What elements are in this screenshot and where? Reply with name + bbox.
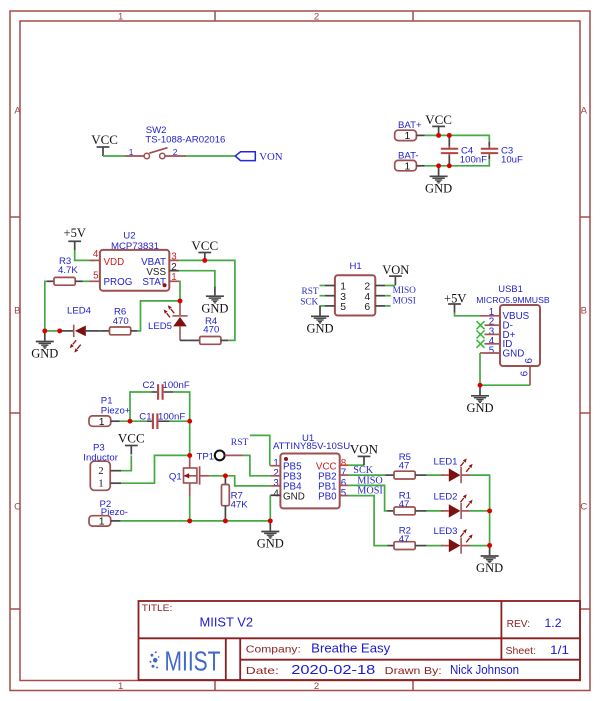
svg-text:USB1: USB1 [498,283,523,294]
connector BAT+ [395,120,422,142]
net flag VON [235,151,282,163]
capacitor C4 [441,135,487,165]
svg-text:REV:: REV: [507,618,530,630]
svg-text:VON: VON [259,151,283,163]
wire rail down [489,511,491,546]
resistor R2 [388,525,427,549]
resistor R1 [388,490,427,515]
wire +5V to U2 pin4 [75,250,94,260]
junction P1/C2 [128,419,133,424]
junction U1 GND [268,518,273,523]
switch SW2 [125,125,225,159]
svg-text:PB0: PB0 [318,492,337,503]
ground at U1 [257,522,284,551]
wire gate to junction [210,475,226,477]
wire junction to R6 branch [137,301,180,331]
svg-text:Nick Johnson: Nick Johnson [450,663,519,677]
svg-text:4: 4 [93,249,99,260]
ground at H1 [306,307,333,336]
pin 3 stub U2 [169,259,179,261]
junction USB GND [478,383,483,388]
VON supply at H1 [382,263,409,285]
title block texts [142,603,570,677]
wire P3 pin1 to drain junction [121,455,190,483]
wire LED4 left lead [60,330,73,332]
svg-text:6: 6 [524,358,535,364]
svg-text:VCC: VCC [118,431,145,446]
svg-text:2: 2 [314,12,319,23]
wire stubs H1 right green [385,296,391,306]
wire USB GND down [479,353,481,385]
wire STAT down to LED5 junction [178,281,181,301]
junction VBAT/VCC [202,258,207,263]
wire VSS to GND [179,271,215,287]
svg-text:SCK: SCK [353,465,373,476]
svg-text:MIIST V2: MIIST V2 [200,615,254,630]
wire RST stub to PB5 [250,435,270,465]
svg-text:VDD: VDD [104,257,125,268]
wire pin8 to VON [348,464,364,466]
VCC supply at BAT [425,112,452,136]
wire C1 to rail [170,420,190,422]
svg-text:H1: H1 [350,261,362,272]
wire LED4 to R6 [86,330,100,332]
resistor R5 [385,452,427,479]
pin 2 lead P3 [110,470,121,472]
svg-text:GND: GND [503,349,525,360]
pin 1 stub U2 [169,280,179,282]
svg-text:Drawn By:: Drawn By: [385,665,442,677]
svg-text:TITLE:: TITLE: [142,603,173,614]
pin 2 stub U2 [169,270,179,272]
junction C4 top [447,133,452,138]
pin 2 stub USB1 [485,324,501,326]
wire pin4 to GND rail [269,495,271,521]
wire BAT- rail [425,159,490,166]
connector P2 [89,499,128,528]
svg-text:4.7K: 4.7K [58,265,78,276]
svg-text:Q1: Q1 [169,472,182,483]
wire R3 left down to GND [45,281,47,331]
wire +5V to VBUS [455,313,481,316]
junction GND/BAT- [436,163,441,168]
pin lead P1 [111,420,120,422]
IC U1 ATTINY85V-10SU [273,433,350,508]
wire pin6 to GND junction [480,384,530,386]
resistor R6 [100,307,137,335]
junction LED3/GND [487,543,492,548]
svg-text:47: 47 [399,534,410,545]
wire VCC to P3 pin2 [121,456,131,471]
svg-text:Piezo+: Piezo+ [101,406,131,417]
wire LED3 to rail [470,545,490,547]
wire MISO to R1 [348,485,387,511]
no-connect X pin4 [477,340,485,348]
wire VBAT net [179,260,235,340]
svg-text:5: 5 [93,270,99,281]
svg-text:470: 470 [203,324,219,335]
test point TP1 [197,451,225,463]
svg-text:4: 4 [273,488,279,499]
LED LED2 [434,492,473,520]
svg-text:MISO: MISO [393,286,417,296]
VON supply at U1 [350,442,379,466]
svg-text:A: A [581,105,588,116]
MIIST logo [150,645,221,676]
wire Q1 source to rail [189,497,191,521]
svg-text:MIIST: MIIST [165,645,221,676]
junction C4 bottom [447,163,452,168]
VCC supply at SW2 [91,132,118,156]
capacitor C1 [139,411,185,429]
LED LED1 [434,457,473,484]
wire rail down [189,415,191,455]
pin 1 stub USB1 [480,315,500,317]
svg-text:6: 6 [519,370,530,376]
svg-text:TS-1088-AR02016: TS-1088-AR02016 [145,134,225,145]
pin 1 stub U1 [270,465,280,467]
svg-text:6: 6 [364,302,370,313]
svg-text:Company:: Company: [246,643,301,655]
svg-text:Sheet:: Sheet: [506,645,537,657]
+5V supply at U2 [64,226,86,250]
svg-text:C: C [580,502,587,513]
svg-text:1.2: 1.2 [545,616,562,630]
pin line TP1 to RST net [225,454,243,456]
pin 6 line USB1 [529,366,531,385]
pin 6 stub U1 [340,484,349,486]
wire R1 to LED2 [427,510,443,512]
svg-text:C1: C1 [139,411,151,422]
svg-text:+5V: +5V [444,292,466,306]
junction gate/R7 [223,473,228,478]
svg-text:1: 1 [129,147,134,157]
wire R2 to LED3 [427,545,443,547]
svg-text:47: 47 [399,499,410,510]
wire P2 ground rail [121,520,271,522]
wire LED1 to rail [470,475,490,511]
svg-text:C: C [14,502,21,513]
capacitor C3 [481,142,523,166]
pin 8 stub U1 [340,464,349,466]
junction R7/P2 rail [223,518,228,523]
pin 7 stub U1 [340,474,349,476]
pin stubs H1 right [375,286,385,306]
pin 5 stub U1 [340,495,349,497]
resistor R7 [222,476,249,521]
svg-text:VON: VON [350,442,379,457]
junction VCC/BAT+ [436,133,441,138]
svg-text:LED4: LED4 [67,305,92,316]
wire VCC to SW2 pin1 [103,155,125,157]
wire between dots [45,330,60,332]
wire P1 to C1 [120,420,147,422]
svg-text:ATTINY85V-10SU: ATTINY85V-10SU [273,441,350,452]
svg-text:100nF: 100nF [163,380,190,391]
LED LED3 [434,526,473,554]
svg-text:SCK: SCK [300,297,318,307]
svg-text:C2: C2 [143,380,155,391]
wire R5 to LED1 [427,474,443,476]
svg-text:1: 1 [118,12,123,23]
pin stubs H1 left [325,286,335,306]
connector P3 [83,442,118,490]
svg-text:Breathe Easy: Breathe Easy [311,642,391,656]
pin 4 stub U1 [270,494,280,496]
transistor Q1 [169,455,210,496]
wire LED2 to rail [470,510,490,512]
wire MOSI to R2 [348,496,387,546]
svg-text:5: 5 [489,346,495,357]
wire SCK to R5 [348,474,385,476]
junction rail/P3/Q1 [187,453,192,458]
pin 5 stub U2 [90,280,100,282]
svg-text:2: 2 [314,681,319,692]
svg-text:GND: GND [283,492,305,503]
svg-text:TP1: TP1 [197,452,215,463]
wire junction to PB4 [225,476,270,486]
svg-text:100nF: 100nF [460,154,487,165]
pin lead P2 [111,520,121,522]
svg-text:2020-02-18: 2020-02-18 [291,662,375,677]
wire H1 pin5 to GND [319,306,321,307]
junction C1/rail [187,419,192,424]
ground at USB [466,386,493,415]
svg-text:470: 470 [113,316,129,327]
svg-text:B: B [581,305,587,316]
svg-text:VON: VON [382,263,409,277]
svg-text:5: 5 [340,302,346,313]
junction Q1/P2 rail [187,518,192,523]
svg-text:1/1: 1/1 [550,643,569,657]
resistor R4 [189,316,228,344]
junction LED2/rail [487,508,492,513]
svg-text:RST: RST [231,437,249,448]
svg-text:PROG: PROG [104,277,133,288]
pin 3 stub U1 [270,485,280,487]
pin lead BAT- [416,165,424,167]
svg-text:+5V: +5V [64,226,86,240]
junction LED4 left [57,328,62,333]
capacitor C2 with branch wire [130,380,190,421]
svg-text:MOSI: MOSI [393,296,416,306]
wire R3 to U2 pin5 [83,280,91,282]
ground at LEDs [476,546,503,575]
wire SW2 pin2 to VON flag [187,155,235,157]
pin 4 stub U2 [90,259,100,261]
svg-text:1: 1 [118,681,123,692]
connector P1 [89,395,131,428]
svg-text:A: A [14,105,21,116]
svg-text:LED3: LED3 [434,526,458,537]
svg-text:1: 1 [98,479,103,490]
svg-text:LED2: LED2 [434,492,458,503]
header H1 [335,261,375,316]
svg-text:VCC: VCC [91,132,118,147]
no-connect X pin2 [477,321,485,329]
VCC supply at P3 [118,431,145,455]
ground at U2 VSS [201,286,228,315]
svg-text:STAT: STAT [142,277,166,288]
svg-text:LED5: LED5 [148,321,172,332]
svg-text:5: 5 [341,488,347,499]
pin 3 stub USB1 [485,333,501,335]
wire H1 pin2 to VON [385,285,395,287]
connector USB1 [476,283,550,376]
svg-text:MICRO5.9MMUSB: MICRO5.9MMUSB [476,295,550,305]
pin 5 stub USB1 [480,352,500,354]
LED LED4 [67,305,92,352]
ground at LED4 [31,332,58,361]
pin 4 stub USB1 [485,343,501,345]
svg-text:B: B [14,305,20,316]
no-connect X pin3 [477,330,485,338]
svg-text:2: 2 [98,466,103,477]
svg-text:47: 47 [399,460,410,471]
svg-text:VCC: VCC [425,112,452,127]
wire BAT+ rail [425,135,490,141]
svg-text:LED1: LED1 [434,457,458,468]
connector BAT- [395,150,419,172]
wire stubs H1 left green [320,286,326,306]
svg-text:VCC: VCC [191,238,218,253]
junction dots at R3 GND [42,328,47,333]
svg-text:2: 2 [173,147,178,157]
svg-text:Date:: Date: [246,665,279,677]
LED LED5 [148,301,188,341]
pin 2 stub U1 [270,475,280,477]
IC U2 MCP73831 [93,231,177,291]
svg-text:10uF: 10uF [501,154,523,165]
wire TP1 to PB3 [243,455,270,475]
svg-text:47K: 47K [231,500,249,511]
resistor R3 [47,256,83,285]
+5V supply at USB [444,292,466,314]
ground at BAT [425,167,452,196]
junction STAT/LED5/R6 [178,298,183,303]
svg-text:RST: RST [302,287,319,297]
svg-text:U2: U2 [123,231,135,242]
pin lead BAT+ [416,134,424,136]
wire LED5 to R4 [180,339,189,341]
VCC supply at U2 right [191,238,218,262]
pin 1 lead P3 [110,482,121,484]
svg-text:MCP73831: MCP73831 [111,241,159,252]
